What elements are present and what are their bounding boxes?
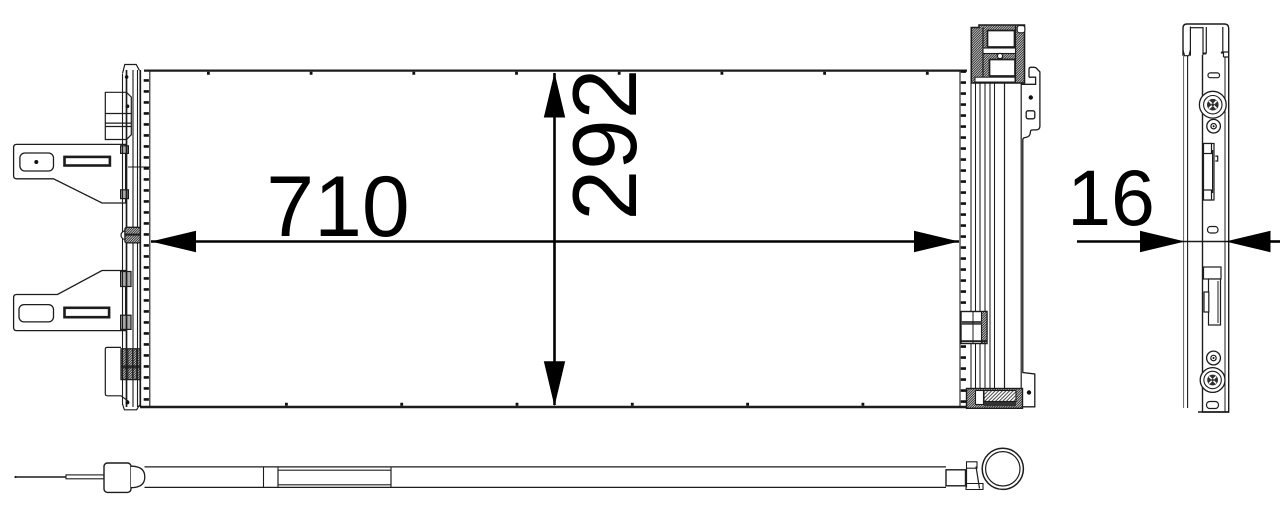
dimension 16 right arrowhead xyxy=(1226,231,1271,252)
side view outer outline xyxy=(1183,24,1229,412)
dimension 292 top arrowhead xyxy=(544,73,565,118)
bracket B3 lower-left arm xyxy=(14,271,131,331)
top fitting block (hatched) xyxy=(971,25,1025,83)
bracket B2 upper-left arm xyxy=(14,144,150,203)
core bottom edge xyxy=(140,406,1023,409)
pipe thin shaft xyxy=(66,475,104,479)
dimension 292 bottom arrowhead xyxy=(544,361,565,406)
svg-text:710: 710 xyxy=(266,159,410,255)
pipe block xyxy=(104,463,131,492)
dimension 292 line xyxy=(553,73,556,405)
side view slot S1 xyxy=(1204,144,1218,201)
receiver mid fitting xyxy=(961,312,987,344)
fin ticks right column xyxy=(961,70,966,404)
side view slot S2 xyxy=(1204,267,1222,325)
core face separator nubs top xyxy=(207,72,960,75)
svg-text:16: 16 xyxy=(1067,153,1155,242)
svg-text:292: 292 xyxy=(555,69,656,221)
core top edge xyxy=(144,69,967,71)
ring outer xyxy=(982,448,1023,489)
core face separator nubs bottom xyxy=(285,403,960,406)
side view pill slot bottom xyxy=(1207,402,1219,409)
clip on left side plate (mid) xyxy=(121,227,140,243)
side view pill slot top xyxy=(1208,73,1220,78)
side view grommet G1 xyxy=(1199,91,1226,133)
pipe tube top line xyxy=(145,466,947,468)
bracket B5 top-right xyxy=(1021,67,1040,360)
receiver drier tube lines xyxy=(971,83,1021,389)
bracket B1 top-left mount xyxy=(105,92,131,139)
side view bottom edge xyxy=(1198,411,1229,413)
dimension 710 right arrowhead xyxy=(914,231,959,252)
pipe joint lines xyxy=(263,467,265,488)
dimension 16 left shaft xyxy=(1077,240,1142,243)
core left face line xyxy=(149,71,151,407)
pipe right fitting xyxy=(946,470,966,486)
left side plate xyxy=(123,65,141,410)
side view pill slot mid xyxy=(1208,227,1219,234)
connector block bottom-left (hatched) xyxy=(121,349,141,380)
dimension 16 thin crossing line xyxy=(1141,241,1268,243)
dimension 16 left arrowhead xyxy=(1140,231,1185,252)
dimension 710 line xyxy=(151,240,959,243)
bottom base block (hatched) xyxy=(967,389,1023,409)
fin ticks left column xyxy=(144,79,149,404)
core right face line xyxy=(959,71,961,407)
pipe link to ring xyxy=(966,462,983,490)
side view left member xyxy=(1183,27,1203,409)
side view grommet G2 xyxy=(1200,351,1225,392)
side view right inner line xyxy=(1224,57,1226,412)
ring inner xyxy=(986,452,1020,486)
pipe tube bottom line xyxy=(145,486,947,488)
side view top fitting xyxy=(1203,27,1229,57)
pipe inner sleeve xyxy=(278,470,391,485)
dimension 16 right shaft xyxy=(1269,240,1280,243)
dimension 710 left arrowhead xyxy=(151,231,196,252)
pipe needle tip xyxy=(15,476,66,478)
bracket B4 bottom-left plate xyxy=(105,347,129,401)
pipe ball joint xyxy=(131,466,145,488)
bracket B6 bottom-right foot xyxy=(1023,360,1035,407)
